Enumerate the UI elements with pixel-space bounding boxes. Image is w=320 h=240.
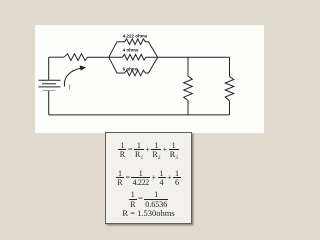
formula line 3: [106, 190, 191, 209]
battery long plate 1: [39, 79, 61, 81]
resistor R-series 3.222ohm zigzag: [64, 54, 88, 61]
current arrow head: [80, 65, 86, 70]
current arrow arc: [64, 68, 81, 86]
wire branch mid vertical bottom: [187, 101, 189, 115]
label I current: [68, 85, 71, 90]
wire top rail to node A: [88, 56, 109, 58]
wire left edge bottom: [48, 91, 50, 115]
svg-text:4 ohms: 4 ohms: [123, 48, 139, 53]
resistor right edge vertical zigzag: [225, 77, 234, 101]
battery short plate 1: [42, 83, 56, 85]
formula line 4: [106, 209, 191, 218]
svg-text:6 ohms: 6 ohms: [123, 66, 139, 71]
wire top rail right segment: [158, 56, 230, 58]
resistor 4.222 ohms top branch: [109, 39, 158, 57]
resistor middle branch vertical zigzag: [184, 76, 193, 101]
wire bottom rail: [49, 114, 230, 116]
battery short plate 2: [43, 90, 56, 92]
wire left edge top: [48, 57, 50, 80]
svg-text:4.222 ohms: 4.222 ohms: [123, 33, 148, 38]
formula box: [105, 132, 192, 224]
resistor 6 ohms bottom branch: [109, 57, 158, 76]
wire branch mid vertical top: [187, 57, 189, 76]
wire right edge bottom: [229, 101, 231, 115]
wire top rail left segment: [49, 56, 64, 58]
slide background: [35, 25, 264, 133]
battery long plate 2: [39, 86, 61, 88]
wire right edge top: [229, 57, 231, 76]
formula line 2: [106, 169, 191, 188]
resistor 4 ohms middle branch: [109, 54, 158, 60]
formula line 1: [106, 141, 191, 162]
